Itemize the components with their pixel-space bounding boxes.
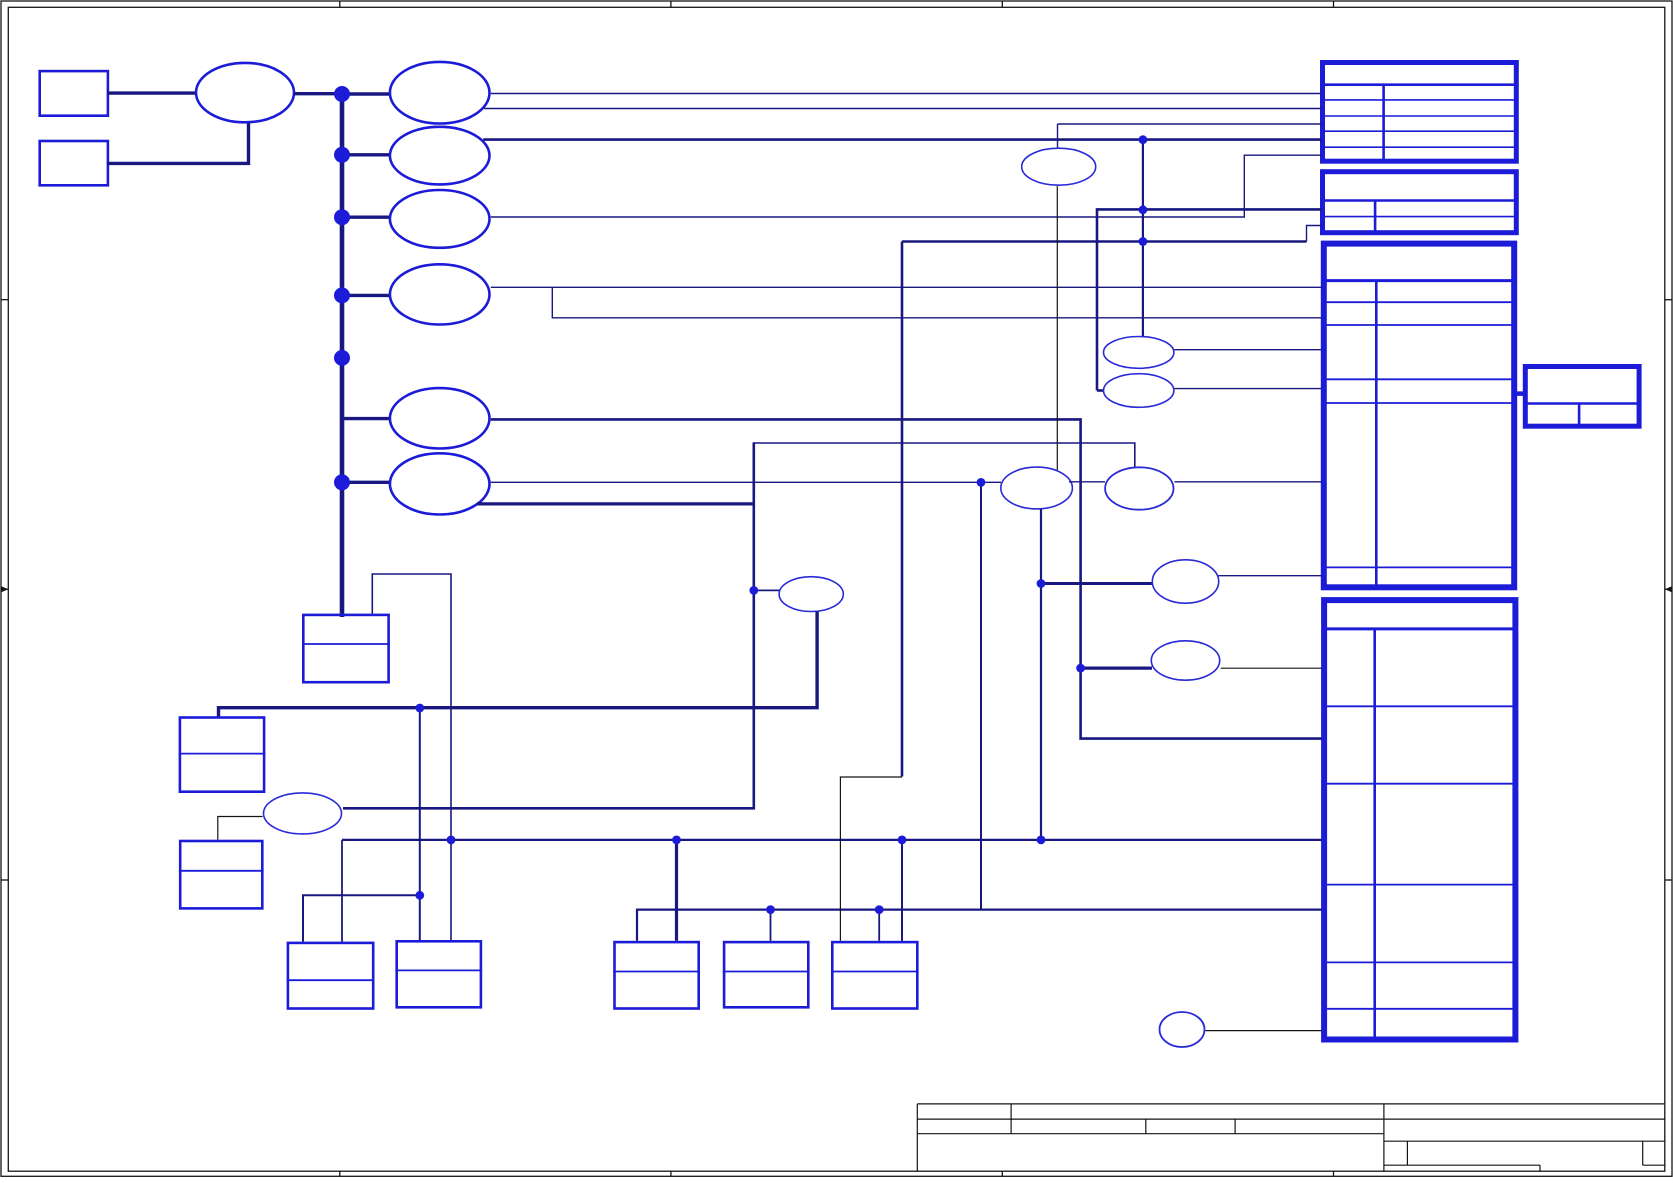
wire bbox=[343, 442, 754, 808]
fuse F3 bbox=[390, 190, 490, 248]
fuse F12 bbox=[1151, 641, 1219, 680]
wire bbox=[1081, 666, 1152, 669]
wire bbox=[342, 839, 1322, 841]
wire bbox=[1174, 481, 1322, 483]
load box M5 bbox=[831, 942, 919, 1008]
connector X4 bbox=[1525, 367, 1639, 427]
wire bbox=[484, 108, 1322, 110]
wire bbox=[342, 215, 390, 218]
wire bbox=[1516, 391, 1524, 396]
wire bbox=[491, 93, 1322, 95]
junction bbox=[1037, 836, 1046, 845]
connector X3 bbox=[1324, 244, 1514, 588]
wire bbox=[1307, 226, 1323, 242]
junction bbox=[875, 905, 884, 914]
bus wire bbox=[340, 94, 345, 617]
wire bbox=[1041, 582, 1153, 585]
fuse F14 bbox=[1104, 374, 1174, 408]
junction (bus) bbox=[334, 474, 350, 490]
wire bbox=[342, 294, 390, 297]
battery box G1 bbox=[40, 71, 108, 116]
wire bbox=[294, 92, 343, 95]
wire bbox=[637, 910, 1322, 941]
connector X2 bbox=[1322, 172, 1517, 233]
relay box K2 bbox=[179, 718, 266, 792]
wire bbox=[107, 91, 196, 94]
wire bbox=[342, 153, 390, 156]
junction bbox=[766, 905, 775, 914]
load box M2 bbox=[395, 941, 482, 1007]
wire (black) bbox=[218, 817, 263, 840]
lamp L1 bbox=[1160, 1012, 1205, 1047]
wire bbox=[770, 910, 772, 941]
wire bbox=[491, 286, 1322, 288]
wire bbox=[878, 910, 880, 941]
connector X5 bbox=[1324, 600, 1515, 1039]
junction bbox=[415, 891, 424, 900]
wire bbox=[754, 443, 1135, 467]
connector X1 bbox=[1322, 63, 1517, 162]
fuse F1 bbox=[390, 62, 490, 124]
wire bbox=[1097, 209, 1322, 390]
load box M3 bbox=[613, 942, 700, 1008]
wire bbox=[341, 840, 343, 942]
junction (bus) bbox=[334, 209, 350, 225]
junction bbox=[749, 586, 758, 595]
relay box K1 bbox=[302, 615, 390, 682]
wire bbox=[483, 138, 1322, 141]
wire bbox=[901, 840, 903, 941]
fuse F8 bbox=[1022, 148, 1096, 185]
wire bbox=[901, 242, 904, 777]
junction bbox=[447, 836, 456, 845]
junction (bus) bbox=[334, 350, 350, 366]
fuse F5 bbox=[390, 388, 490, 448]
wire bbox=[1057, 124, 1059, 148]
battery box G2 bbox=[40, 141, 108, 185]
wire bbox=[342, 92, 390, 95]
TITLE BLOCK (decorative) bbox=[917, 1104, 1665, 1171]
fuse F15 bbox=[264, 793, 342, 834]
junction (bus) bbox=[334, 86, 350, 102]
wire bbox=[1142, 140, 1144, 337]
wire bbox=[675, 840, 678, 941]
load box M4 bbox=[723, 942, 810, 1007]
wire (black) bbox=[840, 777, 902, 941]
wire bbox=[1097, 389, 1104, 392]
wire (black) bbox=[1221, 667, 1322, 669]
fuse F6 bbox=[390, 453, 490, 514]
wire bbox=[372, 574, 451, 940]
wire bbox=[491, 481, 1001, 483]
wire bbox=[980, 482, 982, 910]
fuse F7 bbox=[779, 577, 843, 612]
wire bbox=[1174, 349, 1322, 351]
fuse F9 bbox=[1001, 467, 1073, 509]
wire bbox=[754, 589, 780, 591]
wire (black) bbox=[1056, 186, 1058, 470]
load box M1 bbox=[287, 943, 375, 1009]
wire bbox=[342, 417, 390, 420]
fuse F13 bbox=[1104, 337, 1174, 369]
junction bbox=[977, 478, 986, 487]
relay box K3 bbox=[179, 841, 264, 908]
junction bbox=[1139, 205, 1148, 214]
fuse F11 bbox=[1152, 560, 1218, 603]
junction bbox=[1076, 664, 1085, 673]
junction (bus) bbox=[334, 287, 350, 303]
wire bbox=[552, 287, 1322, 318]
wire bbox=[1040, 509, 1042, 840]
wire bbox=[491, 155, 1322, 217]
wire bbox=[1058, 123, 1323, 125]
wire bbox=[902, 240, 1307, 243]
junction bbox=[898, 836, 907, 845]
wire bbox=[1218, 575, 1322, 577]
junction bbox=[1139, 237, 1148, 246]
junction bbox=[1139, 135, 1148, 144]
wire bbox=[477, 502, 754, 505]
wire bbox=[491, 419, 1322, 738]
junction box E1 bbox=[196, 63, 294, 122]
junction (bus) bbox=[334, 147, 350, 163]
fuse F10 bbox=[1105, 467, 1173, 509]
junction bbox=[672, 836, 681, 845]
fuse F2 bbox=[390, 127, 490, 185]
wire bbox=[1069, 481, 1105, 483]
junction bbox=[415, 704, 424, 713]
fuse F4 bbox=[390, 264, 490, 324]
wire bbox=[107, 123, 249, 164]
junction bbox=[1037, 579, 1046, 588]
wire (black) bbox=[1206, 1030, 1323, 1032]
wire bbox=[1174, 388, 1322, 390]
wire bbox=[342, 481, 390, 484]
wire bbox=[303, 895, 420, 941]
wire bbox=[419, 708, 421, 940]
wire bbox=[219, 612, 818, 718]
